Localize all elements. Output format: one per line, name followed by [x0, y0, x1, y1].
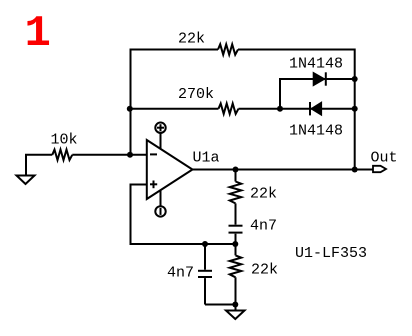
svg-text:22k: 22k	[178, 31, 205, 48]
svg-text:22k: 22k	[251, 262, 278, 279]
svg-text:270k: 270k	[178, 86, 214, 103]
svg-text:Out: Out	[371, 150, 398, 167]
svg-text:U1-LF353: U1-LF353	[295, 245, 367, 262]
svg-text:4n7: 4n7	[167, 265, 194, 282]
svg-text:1N4148: 1N4148	[289, 56, 343, 73]
svg-text:10k: 10k	[51, 132, 78, 149]
svg-text:1: 1	[25, 9, 51, 59]
svg-text:1N4148: 1N4148	[289, 123, 343, 140]
svg-text:22k: 22k	[250, 186, 277, 203]
svg-text:4n7: 4n7	[250, 218, 277, 235]
svg-text:U1a: U1a	[193, 150, 220, 167]
